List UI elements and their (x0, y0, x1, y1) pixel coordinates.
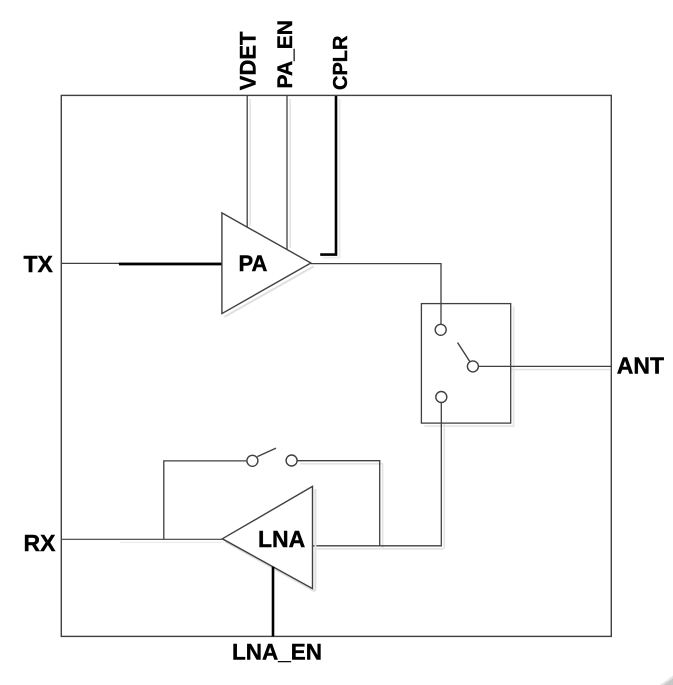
shadow of LNA amplifier (226, 489, 316, 592)
switch common contact (467, 361, 478, 372)
switch lever (458, 343, 470, 362)
PA_EN pin label (274, 20, 297, 88)
ANT wire (479, 365, 612, 367)
svg-text:LNA_EN: LNA_EN (232, 640, 322, 665)
ANT port label (617, 353, 664, 379)
shadow of ANT wire (482, 369, 610, 371)
switch TX contact (435, 324, 446, 335)
chip outline box (61, 95, 611, 636)
CPLR pin label (330, 35, 352, 90)
svg-text:LNA: LNA (258, 526, 305, 552)
svg-text:ANT: ANT (617, 353, 664, 379)
op-amp LNA (222, 486, 312, 588)
page curl decoration (660, 676, 673, 685)
VDET pin label (236, 31, 261, 90)
LNA_EN pin wire (272, 567, 275, 637)
shadow of CPLR pin wire (323, 99, 340, 258)
svg-text:PA_EN: PA_EN (274, 20, 297, 88)
RX wire (61, 538, 222, 540)
op-amp PA (222, 213, 311, 314)
bypass wire left section (164, 461, 247, 539)
shadow of PA amplifier (225, 266, 314, 317)
switch RX pole wire out of box (313, 403, 442, 546)
RX port label (24, 530, 57, 556)
TX port label (24, 251, 54, 277)
CPLR pin wire (320, 96, 337, 255)
TX wire (thin) (61, 262, 222, 264)
bypass wire right section (297, 461, 379, 546)
LNA_EN pin label (232, 640, 322, 665)
bypass switch right contact (286, 455, 297, 466)
svg-text:TX: TX (24, 251, 54, 277)
antenna switch box (421, 304, 510, 424)
svg-text:RX: RX (24, 530, 57, 556)
TX wire thick segment (119, 263, 222, 266)
PA output wire to switch (311, 264, 441, 324)
VDET pin wire (246, 96, 248, 227)
shadow of PA_EN pin wire (289, 99, 291, 248)
shadow of LNA output wire (316, 406, 444, 549)
svg-text:CPLR: CPLR (330, 35, 352, 90)
shadow of switch box (424, 307, 513, 427)
bypass switch lever (257, 448, 276, 457)
svg-text:VDET: VDET (236, 31, 261, 90)
shadow of RX wire (120, 541, 222, 543)
switch TX pole wire into box (440, 304, 442, 324)
svg-text:PA: PA (239, 251, 268, 276)
bypass switch left contact (247, 455, 258, 466)
switch RX contact (436, 392, 447, 403)
shadow of VDET pin wire (249, 99, 251, 226)
PA_EN pin wire (286, 96, 288, 250)
shadow of bypass wire right section (300, 464, 383, 548)
